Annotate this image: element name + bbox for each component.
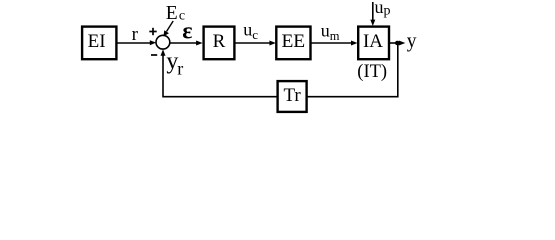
block R [204, 27, 235, 60]
wire uc (R to EE) [235, 41, 276, 46]
wire Ec arrow (diagonal into junction) [163, 21, 173, 36]
wire r (EI to summing junction) [118, 40, 157, 45]
svg-text:R: R [213, 31, 226, 52]
svg-text:(IT): (IT) [357, 62, 387, 82]
wire feedback vertical (node down) [397, 43, 399, 98]
svg-text:EI: EI [88, 31, 106, 52]
summing junction [156, 35, 170, 49]
node output junction [395, 41, 400, 46]
plus sign [149, 28, 156, 35]
wire up (disturbance input into IA) [370, 2, 375, 26]
svg-text:r: r [132, 24, 139, 45]
svg-text:up: up [375, 0, 391, 19]
block IA [358, 27, 389, 60]
wire epsilon (junction to R) [170, 41, 203, 46]
wire feedback horizontal (down leg to Tr) [308, 96, 399, 98]
svg-text:IA: IA [363, 31, 383, 52]
wire output y [389, 41, 405, 46]
block Tr [278, 81, 307, 112]
svg-text:y: y [407, 31, 417, 52]
wire um (EE to IA) [312, 41, 358, 46]
block EE [276, 27, 310, 60]
wire feedback (Tr to summing junction) [161, 49, 278, 97]
svg-text:EE: EE [281, 31, 305, 52]
minus sign [151, 54, 157, 56]
block EI [82, 27, 116, 60]
svg-text:ε: ε [182, 19, 192, 45]
svg-text:Tr: Tr [283, 85, 301, 106]
